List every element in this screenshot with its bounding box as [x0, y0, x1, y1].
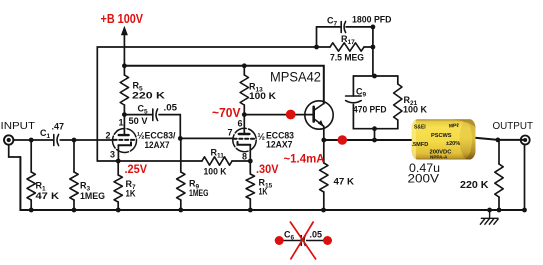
- svg-text:MPSA42: MPSA42: [270, 69, 321, 85]
- wire: grid node to V2 grid pin 7: [180, 137, 233, 139]
- capacitor C6 .05 (removed): [283, 235, 324, 246]
- resistor 220K output: [495, 164, 503, 197]
- wire: 47K leads: [323, 140, 325, 163]
- svg-text:1K: 1K: [259, 187, 268, 197]
- svg-text:470 PFD: 470 PFD: [353, 105, 387, 115]
- resistor R17 7.5MEG: [330, 43, 364, 51]
- wire: output line emitter node to coupling cap: [324, 139, 420, 141]
- wire: 220K leads: [498, 140, 500, 164]
- wire: R3 leads: [73, 140, 75, 172]
- svg-text:100 K: 100 K: [249, 91, 277, 101]
- wire: R7 leads: [117, 161, 119, 175]
- wire: ground bus: [20, 157, 524, 210]
- svg-text:.25V: .25V: [125, 164, 148, 176]
- tube V2 half ECC83/12AX7: [233, 128, 256, 151]
- svg-text:MPℓ: MPℓ: [449, 123, 460, 130]
- svg-text:47 K: 47 K: [36, 191, 60, 201]
- resistor R7 1K: [114, 175, 122, 202]
- wire: R5 leads: [123, 66, 125, 75]
- svg-text:C7: C7: [327, 16, 338, 28]
- svg-text:3: 3: [110, 150, 115, 160]
- svg-text:6: 6: [238, 119, 243, 129]
- svg-text:C6: C6: [284, 230, 295, 242]
- resistor R11 100K: [202, 157, 232, 165]
- wire: output jack sleeve to ground: [524, 145, 526, 210]
- wire: R13 leads: [243, 66, 245, 75]
- svg-text:½: ½: [258, 132, 266, 142]
- wire: C7 loop left riser: [316, 27, 318, 47]
- tube V1 half ECC83/12AX7: [113, 129, 137, 153]
- transistor Q1 MPSA42: [305, 101, 333, 129]
- wire: V1 plate lead: [123, 115, 125, 136]
- wire: R11 right lead to pin 8 node: [232, 160, 250, 162]
- svg-text:7.5 MEG: 7.5 MEG: [330, 53, 364, 63]
- wire: coupling cap right lead to 220K node: [471, 137, 525, 140]
- coupling capacitor 0.47u 200V (yellow photo): [412, 119, 479, 160]
- wire: V2 plate lead: [243, 115, 245, 134]
- svg-text:12AX7: 12AX7: [145, 140, 170, 150]
- svg-text:C1: C1: [40, 128, 51, 140]
- resistor R3 1MEG: [70, 172, 78, 200]
- svg-text:12AX7: 12AX7: [266, 140, 293, 150]
- red dot C6 right terminal: [323, 236, 332, 245]
- capacitor C1 .47: [53, 135, 55, 146]
- resistor R21 100K: [394, 84, 402, 120]
- red X over C6: [290, 222, 316, 260]
- wire: C7/R17 right riser down to C9 loop: [372, 27, 374, 76]
- svg-text:PSCWS: PSCWS: [431, 133, 452, 139]
- svg-text:1800 PFD: 1800 PFD: [352, 15, 392, 25]
- svg-text:2: 2: [106, 131, 111, 141]
- wire: R1 leads: [30, 140, 32, 172]
- resistor R1 47K: [27, 172, 35, 200]
- svg-text:~70V: ~70V: [212, 106, 241, 120]
- svg-text:.05: .05: [310, 230, 323, 240]
- wire: loop bottom tap to output line: [374, 129, 376, 140]
- resistor R9 1MEG: [177, 172, 185, 200]
- svg-text:C5: C5: [138, 104, 149, 116]
- wire: 70V node to Q1 base: [244, 114, 313, 116]
- input jack: [4, 135, 13, 144]
- wire: R9 leads: [180, 138, 182, 172]
- wire: V1 cathode lead: [117, 145, 119, 161]
- svg-text:50 V: 50 V: [129, 116, 148, 126]
- svg-text:R11: R11: [211, 148, 225, 160]
- wire: R21 leads: [397, 76, 399, 84]
- svg-text:.47: .47: [52, 122, 65, 132]
- svg-text:47 K: 47 K: [334, 177, 355, 187]
- wire: input jack ground lead: [9, 145, 21, 157]
- wire: R15 leads: [249, 161, 251, 174]
- output jack: [521, 136, 530, 145]
- red dot C6 left terminal: [275, 236, 284, 245]
- wire: V2 cathode lead: [249, 145, 251, 161]
- wire: cathode feedback line V1 to V2: [97, 160, 202, 162]
- wire: C9 top lead: [352, 76, 354, 96]
- resistor R5 220K: [120, 75, 128, 105]
- svg-text:ECC83/: ECC83/: [145, 131, 176, 141]
- svg-text:1: 1: [119, 118, 124, 128]
- svg-text:S&EI: S&EI: [414, 125, 426, 131]
- wire: C9/R21 loop top: [353, 75, 397, 77]
- capacitor C7 1800PFD: [340, 22, 342, 33]
- red dot on Q1 base: [286, 110, 296, 120]
- svg-text:~1.4mA: ~1.4mA: [284, 154, 325, 166]
- wire: C1 to tube V1 grid: [60, 139, 113, 141]
- capacitor C5 .05: [152, 109, 154, 121]
- svg-text:±20%: ±20%: [446, 141, 460, 147]
- svg-text:1MEG: 1MEG: [189, 188, 209, 198]
- svg-text:220 K: 220 K: [460, 180, 489, 191]
- svg-text:.5MFD: .5MFD: [412, 142, 429, 148]
- wire: +B supply riser: [123, 35, 125, 66]
- svg-text:+B 100V: +B 100V: [101, 12, 144, 26]
- +B supply arrow: [121, 26, 128, 36]
- wire: feedback top line: [97, 47, 330, 161]
- svg-text:1K: 1K: [126, 189, 136, 199]
- wire: input line jack to C1: [13, 139, 54, 141]
- resistor 47K emitter load: [320, 163, 328, 192]
- resistor R13 100K: [240, 75, 248, 105]
- resistor R15 1K: [246, 174, 254, 199]
- svg-text:220 K: 220 K: [132, 91, 166, 101]
- wire: +B rail: [124, 66, 323, 104]
- svg-text:1MEG: 1MEG: [80, 191, 105, 201]
- svg-text:100 K: 100 K: [403, 105, 427, 115]
- svg-text:8: 8: [242, 152, 247, 162]
- wire: C9 bottom lead: [352, 105, 354, 129]
- svg-text:.05: .05: [164, 103, 178, 113]
- wire: C5 to V2 grid node: [159, 115, 180, 139]
- svg-text:100 K: 100 K: [204, 167, 227, 177]
- svg-text:OUTPUT: OUTPUT: [493, 120, 534, 132]
- svg-text:INPUT: INPUT: [1, 120, 36, 132]
- wire: R17 right lead: [364, 46, 373, 48]
- wire: plate node to C5: [124, 114, 152, 116]
- red dot on output line: [338, 135, 348, 145]
- ground symbol: [480, 210, 499, 225]
- svg-text:NPPA-A: NPPA-A: [430, 155, 448, 160]
- wire: Q1 emitter to output line: [323, 126, 325, 140]
- svg-text:.30V: .30V: [256, 164, 279, 176]
- svg-text:200V: 200V: [408, 172, 440, 186]
- svg-text:7: 7: [228, 128, 233, 138]
- capacitor C9 470PFD: [346, 95, 362, 97]
- wire: C9/R21 loop bottom: [353, 128, 397, 130]
- wire: C7 top branch: [317, 26, 341, 28]
